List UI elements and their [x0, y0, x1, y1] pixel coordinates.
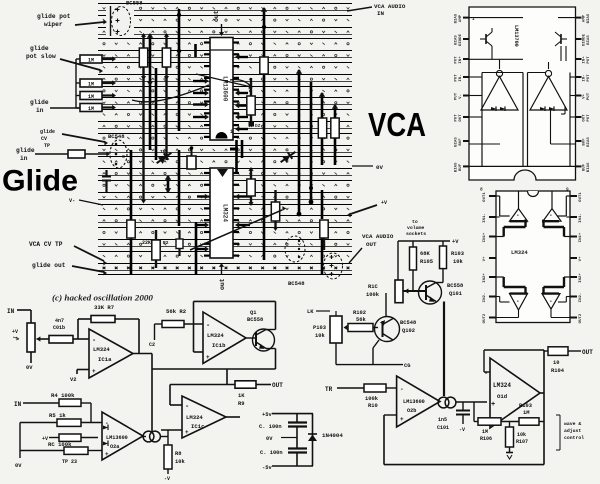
- svg-text:LM13600: LM13600: [403, 399, 425, 405]
- svg-text:IN-: IN-: [583, 74, 587, 81]
- svg-text:out: out: [213, 10, 220, 22]
- svg-text:R2: R2: [163, 240, 169, 246]
- svg-text:10k: 10k: [453, 259, 463, 265]
- svg-text:IN: IN: [7, 308, 15, 315]
- svg-text:VCA: VCA: [368, 106, 426, 143]
- svg-text:100k: 100k: [365, 396, 379, 402]
- svg-text:IN+: IN+: [459, 56, 463, 64]
- svg-text:56k: 56k: [356, 317, 366, 323]
- svg-text:Q101: Q101: [449, 291, 462, 297]
- svg-text:10: 10: [553, 360, 559, 366]
- svg-text:BIAS: BIAS: [455, 35, 459, 45]
- svg-text:1M: 1M: [88, 94, 94, 100]
- svg-text:C. 100n: C. 100n: [259, 424, 282, 430]
- svg-text:+: +: [491, 401, 495, 409]
- svg-text:0V: 0V: [15, 463, 22, 469]
- svg-text:PUT: PUT: [455, 92, 459, 100]
- svg-text:OUT2: OUT2: [483, 313, 487, 323]
- svg-text:VCA AUDIO: VCA AUDIO: [374, 3, 406, 10]
- svg-text:VCA CV TP: VCA CV TP: [29, 241, 63, 248]
- svg-text:IN2-: IN2-: [483, 293, 487, 303]
- svg-text:+: +: [400, 416, 404, 423]
- svg-text:PUT: PUT: [587, 92, 591, 100]
- svg-text:OUT1: OUT1: [579, 192, 583, 202]
- svg-text:+: +: [92, 368, 96, 375]
- svg-text:BC558: BC558: [126, 0, 143, 7]
- svg-text:in: in: [36, 107, 44, 114]
- svg-text:IC1b: IC1b: [212, 342, 226, 349]
- svg-text:glide: glide: [30, 99, 49, 106]
- svg-text:C101: C101: [437, 425, 449, 431]
- svg-text:R5 1k: R5 1k: [49, 412, 66, 419]
- svg-text:-5v: -5v: [262, 465, 272, 471]
- svg-text:C2: C2: [149, 342, 155, 348]
- svg-text:DZ: DZ: [255, 123, 261, 129]
- svg-text:wiper: wiper: [44, 21, 63, 28]
- svg-text:IN-: IN-: [459, 74, 463, 81]
- svg-text:LK: LK: [307, 309, 314, 315]
- svg-text:BC558: BC558: [247, 317, 263, 323]
- svg-text:1M: 1M: [88, 57, 94, 63]
- svg-text:R8: R8: [175, 451, 181, 457]
- svg-text:10k: 10k: [315, 333, 325, 339]
- svg-text:OUT2: OUT2: [579, 313, 583, 323]
- svg-text:C. 100n: C. 100n: [260, 450, 283, 456]
- svg-text:IC1a: IC1a: [98, 356, 112, 363]
- svg-text:BIAS: BIAS: [455, 137, 459, 147]
- svg-text:BUF: BUF: [583, 138, 587, 146]
- svg-text:V-: V-: [459, 94, 463, 99]
- svg-text:glide: glide: [16, 147, 35, 154]
- svg-text:OUT: OUT: [582, 349, 593, 356]
- svg-text:1M: 1M: [482, 429, 488, 435]
- svg-text:O2b: O2b: [407, 408, 416, 414]
- svg-text:OUT: OUT: [366, 241, 377, 248]
- svg-text:R10: R10: [368, 403, 378, 409]
- svg-text:BUF: BUF: [459, 163, 463, 171]
- svg-text:+5v: +5v: [262, 412, 272, 418]
- svg-text:R103: R103: [519, 403, 532, 409]
- svg-text:0V: 0V: [266, 436, 273, 442]
- svg-text:LM13700: LM13700: [513, 25, 519, 47]
- svg-text:+V: +V: [381, 200, 387, 206]
- svg-text:22K: 22K: [142, 240, 151, 246]
- svg-text:R104: R104: [551, 368, 565, 374]
- svg-text:TP: TP: [160, 149, 166, 155]
- svg-text:BIAS: BIAS: [455, 162, 459, 172]
- svg-text:V+: V+: [579, 256, 583, 261]
- svg-text:O1d: O1d: [497, 393, 507, 400]
- svg-text:-: -: [549, 298, 553, 305]
- svg-text:BIAS: BIAS: [587, 35, 591, 45]
- svg-text:IN1-: IN1-: [483, 213, 487, 223]
- svg-text:glide pot: glide pot: [37, 13, 71, 20]
- svg-text:adjust: adjust: [564, 428, 581, 434]
- svg-text:R103: R103: [451, 251, 464, 257]
- svg-text:P103: P103: [313, 325, 326, 331]
- svg-text:R105: R105: [420, 259, 433, 265]
- svg-text:V2: V2: [70, 377, 76, 383]
- svg-text:TP 23: TP 23: [62, 459, 77, 465]
- svg-text:R107: R107: [516, 439, 528, 445]
- svg-text:IN+: IN+: [583, 56, 587, 64]
- svg-text:IN1+: IN1+: [579, 232, 583, 242]
- svg-text:R1C: R1C: [368, 284, 378, 290]
- svg-text:PUT: PUT: [455, 114, 459, 122]
- svg-text:AMP: AMP: [459, 14, 463, 22]
- svg-text:DIODE: DIODE: [583, 33, 587, 46]
- svg-text:BIAS: BIAS: [587, 137, 591, 147]
- svg-text:+: +: [206, 354, 210, 361]
- svg-text:BUF: BUF: [459, 138, 463, 146]
- svg-text:C01b: C01b: [53, 325, 65, 331]
- svg-text:OUT: OUT: [583, 114, 587, 122]
- svg-text:1M: 1M: [88, 81, 94, 87]
- svg-text:8: 8: [480, 187, 483, 193]
- svg-text:volume: volume: [407, 225, 424, 231]
- svg-text:to: to: [412, 219, 418, 225]
- svg-text:IN1+: IN1+: [483, 232, 487, 242]
- svg-text:Q1: Q1: [250, 310, 256, 316]
- svg-text:LM324: LM324: [207, 332, 224, 339]
- svg-text:TP: TP: [44, 143, 50, 149]
- svg-text:R106: R106: [480, 436, 492, 442]
- svg-text:pot slow: pot slow: [26, 53, 56, 60]
- svg-text:10k: 10k: [517, 432, 526, 438]
- svg-text:LM324: LM324: [222, 204, 229, 222]
- svg-text:Q102: Q102: [402, 328, 415, 334]
- svg-text:OUT: OUT: [272, 382, 283, 389]
- svg-text:IN: IN: [377, 10, 384, 17]
- svg-text:56k R2: 56k R2: [166, 308, 187, 315]
- svg-text:1N4004: 1N4004: [322, 432, 343, 439]
- svg-text:100k: 100k: [366, 292, 380, 298]
- svg-text:TR: TR: [325, 386, 333, 393]
- svg-text:PUT: PUT: [455, 74, 459, 82]
- svg-text:PUT: PUT: [587, 56, 591, 64]
- svg-text:10k: 10k: [175, 459, 185, 465]
- svg-text:out: out: [219, 278, 226, 290]
- svg-text:1n5: 1n5: [438, 417, 447, 423]
- svg-text:+V: +V: [452, 239, 459, 245]
- svg-text:33K R7: 33K R7: [94, 304, 114, 311]
- svg-text:-: -: [206, 322, 210, 330]
- svg-text:IN1-: IN1-: [579, 213, 583, 223]
- svg-text:wave &: wave &: [564, 421, 581, 427]
- svg-text:BIAS: BIAS: [455, 13, 459, 23]
- svg-text:VCA AUDIO: VCA AUDIO: [362, 233, 394, 240]
- svg-text:LM324: LM324: [511, 249, 528, 256]
- svg-text:AMP: AMP: [583, 14, 587, 22]
- svg-text:1K: 1K: [238, 393, 245, 399]
- svg-text:+: +: [185, 429, 189, 436]
- svg-text:O2a: O2a: [110, 444, 119, 450]
- svg-text:IN: IN: [14, 401, 22, 408]
- svg-text:IN2+: IN2+: [483, 273, 487, 283]
- svg-text:control: control: [564, 435, 584, 441]
- svg-text:PUT: PUT: [455, 56, 459, 64]
- svg-text:IN2+: IN2+: [579, 273, 583, 283]
- svg-text:-: -: [400, 386, 404, 393]
- svg-text:-: -: [516, 212, 520, 219]
- svg-text:IC1c: IC1c: [191, 423, 205, 430]
- svg-text:glide out: glide out: [32, 262, 66, 269]
- svg-text:IN2-: IN2-: [579, 293, 583, 303]
- svg-text:V-: V-: [69, 198, 75, 204]
- svg-text:1M: 1M: [523, 410, 529, 416]
- svg-text:CV: CV: [41, 136, 47, 142]
- svg-text:+V: +V: [12, 329, 18, 335]
- svg-text:glide: glide: [40, 129, 55, 135]
- svg-text:-V: -V: [459, 427, 465, 433]
- svg-text:BC558: BC558: [447, 283, 463, 289]
- svg-text:in: in: [20, 155, 28, 162]
- svg-text:(c) hacked oscillation 2000: (c) hacked oscillation 2000: [52, 293, 154, 303]
- svg-text:-: -: [185, 403, 189, 411]
- svg-text:BC548: BC548: [400, 320, 416, 326]
- svg-text:-: -: [516, 298, 520, 305]
- svg-text:BC548: BC548: [288, 280, 305, 287]
- svg-text:-V: -V: [164, 476, 170, 482]
- svg-text:0V: 0V: [26, 365, 33, 371]
- svg-text:LM13600: LM13600: [106, 435, 128, 441]
- svg-text:LM324: LM324: [493, 382, 511, 389]
- svg-text:PUT: PUT: [587, 114, 591, 122]
- svg-text:glide: glide: [30, 45, 49, 52]
- svg-text:+: +: [105, 451, 109, 458]
- svg-text:0V: 0V: [376, 164, 383, 171]
- svg-text:1M: 1M: [88, 106, 94, 112]
- svg-text:4n7: 4n7: [55, 318, 64, 324]
- svg-text:OUT1: OUT1: [483, 192, 487, 202]
- svg-text:OUT: OUT: [459, 114, 463, 122]
- svg-text:BUF: BUF: [583, 163, 587, 171]
- svg-text:-: -: [92, 337, 96, 345]
- svg-text:BIAS: BIAS: [587, 162, 591, 172]
- svg-text:BIAS: BIAS: [587, 13, 591, 23]
- svg-text:R9: R9: [238, 401, 244, 407]
- svg-text:PUT: PUT: [587, 74, 591, 82]
- svg-text:R4 100k: R4 100k: [51, 392, 75, 399]
- svg-text:V+: V+: [583, 94, 587, 99]
- svg-text:R102: R102: [353, 310, 366, 316]
- svg-text:-: -: [549, 212, 553, 219]
- svg-text:V+: V+: [483, 256, 487, 261]
- svg-text:68K: 68K: [420, 251, 430, 257]
- svg-text:DIODE: DIODE: [459, 33, 463, 46]
- svg-text:e: e: [122, 154, 125, 160]
- svg-text:Glide: Glide: [2, 165, 78, 198]
- svg-text:BC548: BC548: [108, 133, 125, 140]
- svg-text:LM324: LM324: [93, 346, 110, 353]
- svg-text:sockets: sockets: [406, 231, 426, 237]
- svg-text:CG: CG: [404, 363, 410, 369]
- svg-text:LM324: LM324: [186, 414, 203, 421]
